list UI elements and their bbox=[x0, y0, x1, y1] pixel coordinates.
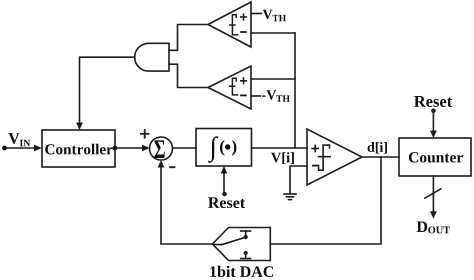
integrator U4 block bbox=[196, 129, 252, 167]
ground bbox=[284, 193, 296, 195]
wire U1 minus input to node bbox=[251, 32, 295, 34]
wire summer to integrator bbox=[173, 147, 197, 149]
wire node V[i] up to window comparators bbox=[294, 33, 296, 148]
controller block bbox=[42, 130, 115, 167]
wire d[i] node down to DAC input bbox=[270, 157, 381, 244]
1bit DAC U5 bbox=[213, 228, 271, 261]
counter block bbox=[399, 138, 471, 176]
wire U3 minus input to ground bbox=[290, 166, 307, 194]
label 1bit DAC bbox=[210, 266, 273, 277]
wire integrator output to quantizer node V[i] bbox=[252, 147, 308, 149]
hysteresis symbol of U3 bbox=[319, 145, 331, 170]
label DOUT bbox=[417, 222, 450, 234]
reset input of integrator bbox=[223, 172, 225, 193]
label minus of summer bbox=[170, 166, 174, 168]
label -VTH bbox=[262, 90, 290, 101]
wire VTH to U1 plus input bbox=[251, 13, 262, 15]
bus output DOUT bbox=[432, 176, 434, 212]
label plus of U3 bbox=[312, 146, 318, 152]
label plus of summer bbox=[141, 130, 149, 138]
label plus of U2 bbox=[241, 78, 247, 84]
label VIN bbox=[8, 133, 30, 146]
AND gate G1 bbox=[135, 43, 169, 71]
node VIN input dot bbox=[2, 146, 7, 151]
switch lever bbox=[213, 243, 222, 245]
hysteresis symbol of U1 bbox=[230, 15, 238, 35]
label minus of U1 bbox=[241, 31, 246, 33]
reset input of counter bbox=[414, 96, 452, 107]
comparator U3 quantizer bbox=[307, 129, 362, 185]
label minus of U3 bbox=[313, 165, 318, 167]
wire Controller to summer bbox=[115, 147, 143, 149]
label plus of U1 bbox=[241, 14, 247, 20]
wire U1 output to AND gate input bbox=[169, 25, 208, 51]
comparator U1 (VTH window) bbox=[208, 2, 251, 47]
wire DAC output to summer bbox=[161, 166, 213, 244]
wire U2 output to AND gate input bbox=[169, 64, 208, 87]
wire -VTH to U2 minus input bbox=[251, 95, 260, 97]
label VTH bbox=[263, 10, 286, 21]
label d[i] bbox=[368, 142, 387, 154]
wire node to U2 plus input bbox=[251, 78, 295, 80]
hysteresis symbol of U2 bbox=[230, 78, 238, 95]
node controller output dot bbox=[113, 146, 118, 151]
summer S1 bbox=[150, 137, 173, 160]
comparator U2 (-VTH window) bbox=[208, 66, 251, 109]
wire VIN to Controller bbox=[5, 147, 36, 149]
label minus of U2 bbox=[241, 94, 246, 96]
label V[i] bbox=[271, 152, 294, 164]
wire U3 output d[i] to Counter bbox=[362, 156, 399, 158]
switch bottom contact bbox=[244, 251, 248, 255]
bus slash mark bbox=[425, 189, 441, 198]
label Reset (integrator) bbox=[208, 197, 245, 208]
wire AND output to Controller bbox=[80, 57, 135, 124]
switch top contact bbox=[241, 230, 251, 232]
